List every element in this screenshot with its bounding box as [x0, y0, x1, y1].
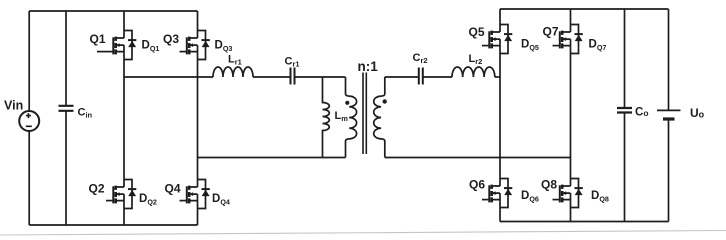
svg-text:n:1: n:1: [358, 59, 379, 74]
node secondary polarity dot: [383, 99, 387, 103]
svg-text:Q3: Q3: [163, 32, 179, 46]
wire tank top right: [385, 76, 419, 78]
wire: [495, 76, 500, 78]
svg-text:Q8: Q8: [541, 178, 557, 192]
inductor Lr1: [213, 67, 253, 77]
transistor Q4: [180, 180, 210, 209]
wire top rail left: [29, 10, 197, 12]
wire Q1 gate lead extension: [97, 51, 107, 53]
capacitor Co: [624, 9, 626, 108]
transistor Q6: [482, 179, 512, 208]
wire bottom rail left: [29, 224, 197, 226]
wire: [423, 76, 452, 78]
wire left rail bottom segment: [28, 131, 30, 225]
wire tank bottom right: [385, 157, 571, 159]
capacitor Cr2: [419, 68, 423, 85]
transistor Q7: [553, 25, 583, 54]
transistor Q2: [106, 180, 136, 209]
svg-text:Q2: Q2: [89, 182, 105, 196]
wire leg C (Q5/Q6): [499, 9, 501, 222]
wire: [253, 76, 290, 78]
svg-text:Q5: Q5: [469, 25, 485, 39]
transformer primary winding: [346, 77, 357, 158]
inductor Lm: [323, 77, 330, 158]
source Vin: [19, 111, 39, 131]
faint scan artifact line at bottom: [0, 231, 726, 236]
transformer core: [363, 73, 366, 155]
capacitor Cin: [65, 11, 67, 105]
wire left rail top segment: [28, 11, 30, 111]
wire bottom rail right: [500, 221, 669, 223]
wire top rail right: [500, 8, 669, 10]
svg-text:Q1: Q1: [90, 32, 106, 46]
battery Uo: [668, 9, 670, 110]
node primary polarity dot: [345, 101, 349, 105]
transistor Q5: [482, 25, 512, 54]
transistor Q1: [106, 31, 136, 60]
wire leg B (Q3/Q4): [197, 11, 199, 225]
capacitor Cr1: [291, 68, 295, 85]
svg-text:Co: Co: [635, 107, 649, 119]
svg-text:Q7: Q7: [543, 25, 559, 39]
transformer secondary winding: [374, 77, 385, 158]
inductor Lr2: [452, 67, 495, 77]
wire tank top left: [124, 76, 213, 78]
svg-text:Q4: Q4: [165, 182, 181, 196]
wire: [295, 76, 346, 78]
svg-text:Q6: Q6: [469, 178, 485, 192]
transistor Q3: [180, 31, 210, 60]
svg-text:Vin: Vin: [4, 99, 23, 113]
wire tank bottom left: [198, 157, 346, 159]
wire leg A (Q1/Q2): [123, 11, 125, 225]
wire leg D (Q7/Q8): [570, 9, 572, 222]
transistor Q8: [553, 179, 583, 208]
